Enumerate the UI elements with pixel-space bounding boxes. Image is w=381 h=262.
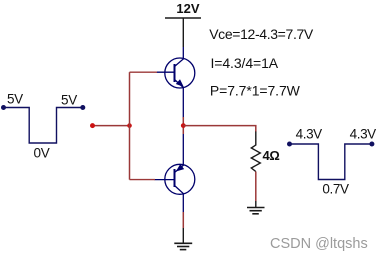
- transistor Q1 (NPN, top): [157, 47, 195, 118]
- transistor Q2 (PNP, bottom): [155, 134, 195, 212]
- base bus vertical wire: [129, 72, 131, 179]
- input stub wire: [93, 125, 130, 127]
- svg-text:4.3V: 4.3V: [296, 127, 323, 142]
- svg-text:12V: 12V: [176, 1, 199, 16]
- svg-text:5V: 5V: [61, 93, 77, 108]
- input waveform right terminal dot: [80, 105, 85, 110]
- svg-text:P=7.7*1=7.7W: P=7.7*1=7.7W: [210, 83, 301, 99]
- wire resistor to ground: [255, 172, 257, 202]
- wire rail to Q1 collector: [182, 18, 184, 47]
- wire to Q1 base: [130, 71, 158, 73]
- 12V power rail bar: [165, 17, 201, 19]
- svg-text:0V: 0V: [34, 146, 50, 161]
- ground (right): [247, 208, 265, 214]
- svg-text:I=4.3/4=1A: I=4.3/4=1A: [211, 55, 279, 71]
- resistor 4 ohm: [251, 132, 260, 172]
- svg-text:5V: 5V: [7, 92, 23, 107]
- output waveform left terminal dot: [287, 142, 292, 147]
- input waveform 5V/0V: [4, 108, 83, 144]
- output waveform 4.3V/0.7V: [290, 144, 372, 180]
- wire to Q2 base: [130, 179, 156, 181]
- input waveform left terminal dot: [1, 105, 6, 110]
- node: base bus junction: [127, 123, 132, 128]
- svg-text:Vce=12-4.3=7.7V: Vce=12-4.3=7.7V: [209, 26, 314, 42]
- output wire to load resistor: [183, 126, 256, 132]
- input wire open-end dot: [90, 123, 95, 128]
- ground stem (right): [255, 201, 257, 208]
- svg-text:4.3V: 4.3V: [350, 127, 377, 142]
- svg-text:4Ω: 4Ω: [263, 148, 280, 163]
- node: output junction: [181, 123, 186, 128]
- ground (bottom): [174, 243, 192, 249]
- wire Q2 collector to ground: [182, 212, 184, 228]
- ground stem (bottom): [182, 228, 184, 243]
- emitter junction wire segment: [182, 117, 184, 134]
- svg-text:CSDN @ltqshs: CSDN @ltqshs: [270, 236, 368, 252]
- svg-text:0.7V: 0.7V: [322, 182, 349, 197]
- output waveform right terminal dot: [369, 142, 374, 147]
